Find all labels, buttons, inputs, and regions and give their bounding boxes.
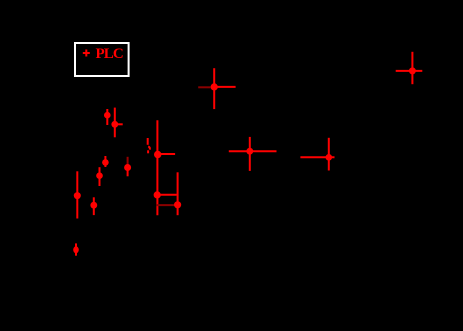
data point J (178,205) xyxy=(156,172,177,215)
legend box xyxy=(75,43,129,76)
data point N (412,71) xyxy=(396,52,423,84)
data point H (158,154) xyxy=(158,153,175,155)
data point F (77,196) xyxy=(76,171,78,218)
legend plus marker xyxy=(83,50,90,57)
data point C (105,162) xyxy=(104,156,106,167)
legend label PLC xyxy=(96,46,123,62)
data point A (107,115) xyxy=(106,109,108,125)
data point L (250,151) xyxy=(229,137,277,171)
data point K (214,87) xyxy=(198,68,235,109)
data point B (115,124) xyxy=(115,108,123,138)
data point M (329,157) xyxy=(300,138,334,171)
svg-text:PLC: PLC xyxy=(96,46,123,62)
data point I (157,195) xyxy=(157,194,177,196)
data point E (99,176) xyxy=(99,167,101,186)
squiggle mark (148,145) xyxy=(148,138,150,153)
shared vertical error bar x=157 xyxy=(156,120,158,215)
data point G (94,205) xyxy=(93,197,95,215)
data point bottom (76,250) xyxy=(75,243,77,255)
data point D (128,167) xyxy=(127,157,129,177)
